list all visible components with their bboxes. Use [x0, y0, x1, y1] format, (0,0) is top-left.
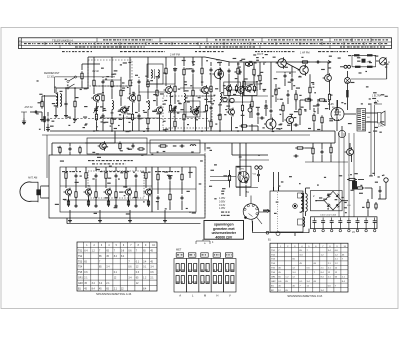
wire: [330, 155, 332, 162]
coil L5: [184, 94, 186, 103]
coil L8: [190, 145, 196, 146]
resistor R30: [295, 92, 297, 102]
capacitor C8: [192, 69, 195, 74]
tube pin hole 2: [247, 205, 249, 207]
wire link6: [240, 95, 268, 97]
wire: [68, 196, 70, 206]
switch contact S2b: [67, 84, 75, 89]
wire: [183, 77, 185, 92]
wire top bus right: [230, 61, 323, 63]
pinout diagram A: [174, 259, 186, 293]
svg-text:TS3: TS3: [78, 261, 83, 263]
resistor R3: [102, 93, 104, 103]
ground: [22, 121, 26, 125]
wire: [210, 128, 212, 131]
coil L8: [158, 70, 159, 78]
node n3: [87, 87, 89, 89]
wire: [65, 180, 67, 188]
svg-text:H: H: [216, 294, 218, 298]
variable capacitor CV4: [194, 106, 199, 113]
module specks in2: [100, 171, 129, 172]
capacitor C3: [102, 114, 105, 119]
transistor TS11: [323, 73, 332, 83]
capacitor C5: [138, 114, 141, 119]
svg-text:OCT: OCT: [257, 52, 264, 56]
wire to indicator2: [210, 180, 229, 182]
wire: [74, 109, 76, 118]
wire: [367, 199, 369, 202]
resistor R80: [275, 87, 277, 97]
tube lead down: [251, 219, 254, 227]
wire: [87, 57, 89, 88]
wire module bus a: [60, 185, 152, 187]
wire mid bus: [85, 142, 335, 144]
resistor R45: [181, 172, 183, 182]
wire: [174, 57, 176, 66]
title specks r3b: [205, 46, 255, 47]
wire: [157, 182, 159, 194]
capacitor C1: [47, 118, 50, 123]
svg-text:ANT AV: ANT AV: [25, 106, 34, 109]
wire: [330, 143, 332, 146]
diode D5: [245, 62, 248, 65]
resistor R39: [127, 199, 129, 207]
dotted line mains unit: [277, 192, 279, 231]
pinout diagram M: [199, 259, 211, 293]
wire: [138, 103, 140, 112]
wire: [294, 233, 296, 236]
wire: [258, 178, 260, 183]
capacitor C24: [239, 171, 242, 176]
wire: [291, 83, 293, 90]
title row2 divider 5: [145, 42, 147, 45]
wire: [55, 106, 57, 114]
wire: [147, 110, 149, 117]
wire link4b: [222, 101, 250, 103]
wire: [41, 96, 43, 102]
designator specks c: [195, 51, 224, 52]
capacitor C21: [157, 196, 160, 201]
wire: [189, 167, 191, 178]
loop bottom lead: [32, 200, 39, 202]
wire: [108, 196, 110, 206]
svg-text:A: A: [179, 294, 181, 298]
module specks in3: [155, 171, 179, 172]
resistor R21: [205, 103, 207, 113]
resistor R81: [303, 99, 313, 101]
wire left h: [55, 76, 115, 78]
diode in bridge: [336, 194, 340, 198]
coil L12: [306, 194, 308, 212]
table AM cell texts: [78, 245, 156, 291]
resistor R3: [81, 71, 83, 81]
wire: [270, 62, 272, 108]
resistor R90: [330, 145, 332, 155]
wire: [265, 109, 267, 116]
capacitor C91: [294, 155, 299, 158]
capacitor C20: [135, 204, 138, 208]
node bus: [183, 130, 185, 132]
wire: [23, 118, 25, 121]
resistor R11: [147, 116, 149, 126]
wire psu bottom bus: [269, 232, 309, 234]
antenna A1: [21, 112, 27, 123]
title specks r2: [24, 43, 387, 44]
capacitor C23: [181, 196, 184, 201]
coil L11: [301, 194, 303, 212]
wire: [278, 187, 280, 191]
capacitor C60: [132, 144, 135, 149]
wire link3: [180, 87, 210, 89]
wire: [174, 94, 176, 104]
resistor R29: [65, 171, 67, 181]
wire: [305, 212, 307, 217]
capacitor C17: [115, 174, 118, 179]
capacitor C95: [257, 173, 260, 178]
coil L3: [112, 101, 114, 110]
wire lower bus: [67, 223, 201, 225]
designator specks a: [62, 51, 92, 52]
wire: [41, 112, 43, 118]
capacitor electrolytic E2: [321, 218, 325, 232]
resistor R50: [336, 107, 338, 117]
wire: [169, 202, 171, 210]
wire: [336, 100, 338, 107]
title row3 divider 1: [59, 45, 61, 48]
resistor R28: [241, 103, 243, 113]
wire: [371, 188, 373, 199]
fuse F1: [276, 232, 280, 236]
wire: [342, 200, 348, 202]
switch S1: [293, 204, 298, 209]
capacitor electrolytic E7: [364, 218, 368, 232]
resistor R36: [282, 103, 284, 113]
ground: [128, 219, 132, 223]
wire: [85, 167, 87, 171]
bridge rectifier GR1: [324, 191, 341, 210]
svg-text:ANT. AM: ANT. AM: [28, 177, 37, 180]
wire: [30, 111, 42, 113]
resistor R42: [147, 199, 149, 207]
wire: [245, 143, 247, 175]
resistor R43 dark: [346, 90, 348, 97]
wire: [219, 62, 221, 66]
title row2 divider 14: [363, 42, 365, 45]
title specks r1b: [215, 39, 254, 40]
wire: [41, 197, 49, 199]
wire: [135, 167, 137, 171]
resistor R38: [125, 171, 127, 181]
resistor R95: [228, 174, 230, 183]
wire: [337, 100, 339, 108]
wire: [219, 77, 221, 92]
transistor TS10: [64, 188, 72, 197]
transistor TS9: [236, 85, 245, 95]
tube socket B1: [243, 204, 259, 220]
wire: [183, 103, 185, 113]
wire: [367, 210, 369, 216]
wire feed vertical: [338, 133, 340, 217]
wire: [210, 73, 212, 84]
resistor R96: [347, 178, 357, 180]
wire: [157, 201, 159, 210]
pinout top box 4: [213, 253, 220, 257]
wire: [183, 57, 185, 66]
wire: [138, 85, 140, 93]
tube lead diag: [257, 217, 263, 224]
svg-text:GR2: GR2: [78, 283, 83, 285]
title row1 divider 3: [206, 38, 208, 42]
IF can box T5: [224, 82, 241, 95]
dark component block: [352, 181, 357, 190]
wire: [132, 102, 134, 112]
wire: [156, 77, 158, 78]
transistor TS5: [164, 85, 173, 95]
title block outer frame: [19, 38, 392, 49]
transistor TS8: [98, 141, 107, 150]
diode in bridge: [327, 204, 331, 208]
tube pin hole 3: [252, 204, 254, 206]
resistor R84: [301, 61, 310, 63]
wire: [105, 167, 107, 171]
svg-text:TS1: TS1: [78, 250, 83, 252]
wire: [259, 83, 261, 90]
wire: [115, 167, 117, 171]
wire: [51, 143, 53, 155]
capacitor C82: [260, 117, 265, 120]
wire: [210, 111, 212, 120]
wire link8: [276, 71, 296, 73]
wire: [228, 62, 230, 66]
capacitor C16: [95, 204, 98, 208]
resistor R27: [237, 66, 239, 76]
wire to indicator: [210, 176, 236, 178]
wire bottom bus top strip: [50, 130, 335, 132]
resistor R40 dark: [354, 54, 360, 56]
wire link4: [230, 89, 258, 91]
variable capacitor CV3: [171, 106, 176, 113]
title specks r3c: [340, 46, 385, 47]
tube pin hole 5: [256, 213, 258, 215]
resistor R25: [219, 112, 221, 122]
title block row line 1: [19, 41, 392, 43]
wire: [82, 63, 100, 65]
wire: [275, 97, 277, 102]
title row2 divider 3: [94, 42, 96, 45]
wire: [56, 87, 88, 89]
svg-text:40000 Ω/V: 40000 Ω/V: [215, 235, 232, 239]
title specks r3a: [75, 46, 145, 47]
wire: [183, 122, 185, 131]
wire: [239, 143, 241, 170]
node bus: [201, 130, 203, 132]
transistor TS13: [124, 188, 132, 197]
wire: [102, 103, 104, 112]
wire: [52, 142, 115, 144]
resistor R46: [245, 176, 247, 185]
loop top lead: [32, 181, 39, 183]
wire: [96, 122, 98, 131]
core T3: [154, 69, 156, 79]
resistor R13: [165, 66, 167, 76]
wire: [378, 198, 386, 200]
ground: [73, 118, 77, 122]
capacitor C1: [34, 111, 39, 114]
resistor R23: [210, 119, 212, 129]
resistor R18: [183, 112, 185, 122]
wire: [344, 113, 356, 115]
wire: [242, 113, 244, 131]
transistor TS6: [191, 108, 199, 117]
wire: [376, 60, 380, 62]
wire: [237, 62, 239, 66]
title row2 divider 9: [249, 42, 251, 45]
wire: [85, 180, 87, 188]
resistor R4 dark: [43, 116, 45, 122]
title row2 divider 13: [343, 42, 345, 45]
wire: [96, 102, 98, 112]
wire: [192, 57, 194, 66]
capacitor C10: [210, 106, 213, 111]
wire: [291, 66, 293, 77]
wire: [329, 102, 331, 110]
capacitor C7: [174, 106, 177, 111]
wire: [181, 182, 183, 194]
title row2 divider 1: [44, 42, 46, 45]
note box spanningen: [204, 221, 244, 240]
capacitor C61: [180, 145, 185, 148]
wire: [206, 113, 208, 131]
wire loop right: [375, 55, 377, 67]
capacitor C63: [69, 147, 72, 152]
diode D2: [344, 65, 347, 68]
wire: [249, 125, 258, 127]
resistor R15: [174, 84, 176, 94]
wire: [282, 113, 284, 122]
transistor TS14: [144, 188, 152, 197]
IF can box T6: [244, 82, 258, 95]
capacitor C11: [228, 69, 231, 74]
capacitor electrolytic E6: [356, 218, 360, 232]
wire module bus c: [152, 188, 196, 190]
dashed gang drop: [196, 113, 198, 119]
wire: [231, 117, 233, 132]
resistor R60: [119, 142, 121, 151]
wire: [66, 218, 68, 224]
designator specks d: [255, 51, 295, 52]
dashed gang drop: [126, 113, 128, 119]
wire: [156, 78, 158, 88]
wire: [156, 98, 158, 106]
wire: [120, 98, 122, 106]
table spanningsmeting AM: [77, 242, 157, 291]
transistor TS11: [84, 188, 92, 197]
capacitor C13: [75, 174, 78, 179]
wire: [346, 84, 348, 91]
transistor TS12: [345, 147, 354, 157]
wire: [102, 77, 104, 78]
wire: [270, 114, 272, 119]
module specks top2: [92, 163, 126, 164]
coupling coil core dark: [36, 189, 40, 195]
wire: [69, 143, 71, 146]
wire: [257, 108, 259, 111]
ground: [64, 114, 68, 118]
svg-text:2 HF PM: 2 HF PM: [170, 54, 180, 57]
wire: [295, 90, 297, 94]
svg-text:TS5: TS5: [78, 272, 83, 274]
bus arrow: [323, 60, 331, 63]
wire: [385, 182, 387, 199]
resistor R8: [131, 112, 133, 122]
svg-text:GR2: GR2: [271, 281, 276, 283]
capacitor C80: [287, 93, 290, 98]
wire link3b: [186, 95, 215, 97]
wire: [132, 122, 134, 131]
variable capacitor CV2: [124, 106, 129, 113]
wire: [147, 57, 149, 78]
resistor R10: [147, 79, 149, 89]
title row1 divider 7: [370, 38, 372, 42]
node bus: [237, 130, 239, 132]
node psu1: [315, 200, 316, 201]
node bus: [129, 130, 131, 132]
resistor R2: [95, 112, 97, 122]
wire: [138, 119, 140, 131]
wire: [259, 62, 261, 74]
title row2 divider 11: [299, 42, 301, 45]
wire: [169, 167, 171, 172]
wire: [309, 95, 311, 110]
resistor R85: [240, 125, 249, 127]
pinout diagram V: [224, 259, 236, 293]
coil L10: [196, 106, 197, 111]
wire: [249, 104, 251, 108]
diode in bridge: [327, 194, 331, 198]
wire: [165, 76, 167, 86]
wire loop bottom: [352, 66, 376, 68]
wire: [308, 229, 310, 233]
capacitor C9: [210, 68, 213, 73]
wire: [237, 76, 239, 86]
svg-text:C101 C102 C103: C101 C102 C103: [320, 215, 337, 217]
wire: [159, 115, 161, 132]
wire: [229, 170, 231, 175]
wire: [47, 112, 49, 117]
wire: [287, 90, 289, 92]
node bus: [219, 130, 221, 132]
svg-text:V: V: [229, 294, 231, 298]
wire: [55, 88, 57, 94]
resistor R20: [201, 66, 203, 76]
resistor R62: [137, 148, 145, 150]
wire: [65, 167, 67, 171]
dashed box input filter: [88, 60, 132, 86]
resistor R5: [111, 116, 113, 126]
coil L1: [56, 94, 58, 107]
wire: [263, 209, 269, 211]
wire: [95, 199, 97, 205]
capacitor C33: [239, 70, 242, 75]
wire: [65, 106, 67, 114]
wire: [105, 180, 107, 188]
capacitor C84: [284, 74, 287, 79]
capacitor C90: [321, 150, 324, 155]
wire: [366, 121, 378, 123]
capacitor C2: [65, 102, 68, 107]
wire link5: [100, 117, 160, 119]
wire: [95, 179, 97, 190]
